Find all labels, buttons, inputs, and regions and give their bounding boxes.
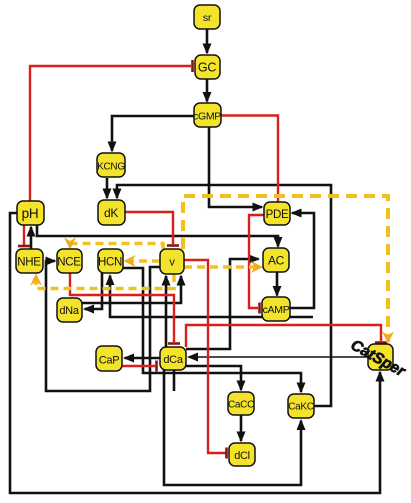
wire dCa->v — [165, 276, 168, 347]
node AC — [263, 248, 289, 272]
wire PDE inhibits cAMP — [249, 215, 264, 308]
svg-text:dNa: dNa — [59, 305, 79, 317]
wire dCa->CaKC bottom loop — [164, 370, 301, 485]
node dNa — [57, 298, 82, 322]
wire NCE inhibits dCa — [70, 273, 174, 342]
wire v->AC dashed — [184, 265, 262, 269]
wire HCN->CaKC — [123, 268, 301, 392]
tee at GC — [191, 60, 194, 72]
wire dNa->v — [82, 276, 181, 303]
svg-text:dCa: dCa — [163, 354, 183, 366]
node NHE — [16, 249, 43, 273]
wire v->NCE net — [46, 261, 160, 391]
wire CaKC->dK long loop — [117, 185, 331, 406]
node sr — [194, 5, 220, 29]
wire pH inhibits GC — [30, 66, 191, 201]
wire cAMP->HCN — [110, 276, 313, 318]
wire v->CatSper big dashed — [183, 196, 388, 342]
node pH — [17, 201, 44, 225]
node HCN — [98, 249, 123, 273]
wire pH->CatSper bottom loop — [10, 213, 380, 493]
node dK — [98, 200, 125, 225]
svg-text:cGMP: cGMP — [193, 111, 221, 123]
tee at dCl — [225, 448, 228, 459]
wire dCa->AC — [186, 259, 259, 349]
wire cGMP->PDE red — [221, 116, 278, 203]
wire v->HCN dashed — [125, 259, 160, 263]
wire cGMP->KCNG — [112, 116, 194, 151]
tee at dCa from CaP — [155, 361, 158, 372]
node CatSper — [348, 337, 409, 381]
wire CatSper->dCa thin — [189, 356, 369, 358]
svg-text:AC: AC — [268, 254, 285, 268]
wire AC->cAMP — [276, 272, 279, 296]
tee at dCa from NCE — [168, 342, 180, 345]
node cAMP — [262, 297, 290, 321]
node CaP — [96, 346, 122, 371]
node GC — [195, 55, 220, 79]
svg-text:HCN: HCN — [98, 257, 122, 269]
wire v red to dCl — [184, 260, 226, 453]
wire CaCC->dCl — [240, 415, 243, 441]
tee bars (inhibition ends) — [18, 60, 387, 459]
wire KCNG->dK — [106, 178, 109, 198]
tee at NHE — [18, 245, 30, 248]
wire GC->cGMP — [206, 79, 209, 102]
node KCNG — [97, 153, 125, 177]
node CaCC — [228, 392, 254, 415]
wire HCN->dNa — [85, 273, 103, 309]
wire red branch to dCa and CatSper — [186, 325, 381, 347]
svg-text:NCE: NCE — [57, 257, 81, 269]
node CaKC — [288, 394, 314, 418]
node dCa — [160, 347, 186, 370]
wire NHE->pH — [30, 227, 33, 249]
wire pH inhibits NHE — [23, 225, 25, 245]
tee at v — [167, 244, 179, 247]
wire dK inhibits v — [125, 212, 173, 244]
node NCE — [57, 249, 82, 273]
wire sr->GC — [206, 29, 209, 53]
wire cGMP->PDE — [209, 127, 262, 207]
svg-text:KCNG: KCNG — [97, 162, 125, 173]
svg-text:CaKC: CaKC — [288, 402, 314, 413]
node v — [160, 249, 184, 274]
svg-text:v: v — [169, 257, 175, 269]
svg-text:cAMP: cAMP — [263, 304, 290, 316]
wire v->NHE dashed — [36, 274, 174, 289]
node PDE — [264, 202, 290, 225]
svg-text:dCl: dCl — [234, 450, 250, 462]
wire dCa->CaCC — [186, 366, 241, 390]
svg-text:PDE: PDE — [266, 209, 289, 221]
node dCl — [229, 443, 255, 466]
svg-text:sr: sr — [203, 12, 212, 24]
tee at cAMP — [258, 303, 261, 314]
wire pH->AC — [37, 225, 278, 247]
svg-text:NHE: NHE — [17, 257, 41, 269]
svg-text:dK: dK — [104, 206, 118, 220]
node cGMP — [193, 103, 221, 127]
wire dCa->CaP — [125, 357, 161, 360]
tee at CatSper — [375, 341, 387, 344]
wire dCa drop to NCE net — [173, 370, 176, 391]
svg-text:CaP: CaP — [99, 355, 120, 367]
wire cAMP->PDE — [290, 213, 314, 308]
wire CaP inhibits dCa — [122, 365, 155, 367]
svg-text:GC: GC — [198, 61, 216, 75]
svg-text:CaCC: CaCC — [228, 400, 254, 411]
wire v->NCE dashed — [70, 244, 163, 250]
svg-text:pH: pH — [22, 206, 39, 221]
